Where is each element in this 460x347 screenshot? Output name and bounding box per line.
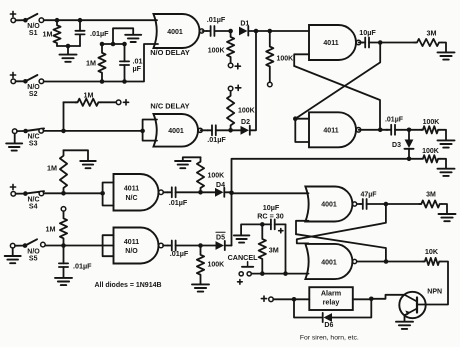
ground at S3	[6, 143, 22, 150]
node R14 bottom	[260, 271, 265, 276]
plus at cancel	[238, 280, 243, 285]
label 10K (R16)	[425, 247, 439, 256]
ground at R15	[439, 214, 456, 221]
terminal below R3	[228, 63, 233, 68]
label .01 uF (C2)	[133, 57, 143, 73]
resistor R11 100K	[197, 157, 204, 192]
wire D3 to trigger bus	[408, 150, 410, 159]
ground at S5	[5, 256, 21, 263]
label D2	[241, 119, 250, 126]
node S3 line / R4	[61, 129, 66, 134]
label N/O DELAY	[150, 48, 190, 57]
terminal at R4	[116, 100, 121, 105]
wire U4 output	[163, 191, 168, 193]
gate U6 4001 NOR	[305, 187, 356, 222]
label 4011 U3b	[323, 128, 338, 135]
svg-text:S5: S5	[29, 255, 38, 262]
wire D2 to node bus	[251, 31, 256, 130]
svg-text:100K: 100K	[208, 172, 225, 179]
gate U5 4011 NAND	[114, 228, 164, 264]
wire cancel to gate U7 input	[251, 273, 308, 275]
resistor R9 100K	[227, 91, 234, 131]
svg-text:D4: D4	[216, 182, 225, 189]
wire C5 node to R7	[409, 129, 422, 131]
label D5	[216, 232, 225, 241]
resistor R1 1M	[53, 22, 60, 46]
label 100K (R13)	[208, 262, 225, 269]
gate U2 4001 NOR	[154, 114, 203, 147]
label 10uF (C10)	[263, 203, 280, 212]
label 100K (R3)	[208, 47, 225, 54]
label N/C DELAY	[150, 102, 189, 111]
wire R16 to Q1 base	[418, 262, 448, 305]
svg-text:3M: 3M	[269, 245, 279, 254]
label .01uF (C7)	[169, 198, 188, 207]
svg-text:S2: S2	[29, 91, 38, 98]
label 4001 U1	[167, 29, 183, 36]
wire S4 to gate U4	[44, 192, 103, 194]
capacitor C9 .01uF	[168, 241, 201, 251]
label 100K (R8)	[422, 148, 439, 155]
capacitor C4 10uF	[362, 38, 380, 48]
wire C11 to R15	[386, 203, 421, 205]
svg-text:relay: relay	[323, 297, 340, 306]
svg-text:CANCEL: CANCEL	[228, 253, 259, 262]
node U3b input bracket	[293, 116, 298, 121]
node on U3b output	[378, 128, 383, 133]
wire U6 output	[357, 203, 361, 205]
wire node to ground hook	[113, 28, 133, 44]
terminal above R9	[228, 86, 233, 91]
wire D5 to bus	[226, 245, 232, 247]
ground at R8	[438, 169, 455, 176]
battery plus terminal for S2	[10, 72, 15, 77]
wire to ground S1 RC	[67, 46, 69, 54]
wire S2 to gate U1 lower input	[44, 44, 158, 82]
node C6/R9/D2	[228, 128, 233, 133]
resistor R4 1M	[64, 99, 102, 106]
gate U4 input bracket	[100, 183, 113, 206]
label 100K (R5)	[277, 56, 294, 63]
plus at R3 terminal	[235, 64, 240, 69]
label CANCEL	[228, 253, 259, 262]
svg-text:10µF: 10µF	[359, 28, 376, 37]
svg-text:1M: 1M	[86, 59, 96, 68]
ground at R13	[192, 284, 209, 291]
svg-text:.01µF: .01µF	[170, 249, 189, 258]
label 3M (R14)	[269, 245, 279, 254]
label 100K (R7)	[423, 119, 440, 126]
wire cross-couple U3a out to U3b	[295, 44, 380, 119]
battery plus terminal for S4	[10, 184, 15, 189]
wire U7 output	[357, 261, 386, 263]
label All diodes = 1N914B	[94, 282, 161, 289]
ground at Q1	[396, 322, 413, 329]
node S4 / R10	[61, 191, 66, 196]
label 4001 U6	[321, 202, 337, 209]
wire S5 terminal to ground	[12, 248, 14, 256]
gate U4 4011 NAND	[114, 174, 164, 211]
wire R8 to ground	[440, 159, 446, 169]
svg-text:.01µF: .01µF	[169, 198, 188, 207]
svg-text:D3: D3	[392, 142, 401, 149]
node S1 line / C1 top	[78, 18, 83, 23]
resistor R5 100K	[266, 31, 273, 82]
resistor R16 10K	[423, 258, 441, 265]
svg-text:.01µF: .01µF	[385, 117, 404, 124]
resistor R13 100K	[197, 246, 204, 285]
svg-text:.01µF: .01µF	[73, 262, 92, 271]
wire U1 output	[202, 30, 207, 32]
diode D2	[233, 126, 250, 135]
relay box	[309, 287, 353, 310]
node C11/R15/latch	[384, 202, 389, 207]
svg-text:100K: 100K	[422, 148, 439, 155]
capacitor C2 .01uF	[120, 44, 129, 82]
label D4	[216, 182, 225, 189]
svg-text:100K: 100K	[277, 56, 294, 63]
capacitor C10 10uF	[262, 219, 285, 229]
svg-text:4011: 4011	[323, 40, 338, 47]
svg-text:.01µF: .01µF	[207, 15, 226, 24]
svg-text:.01µF: .01µF	[90, 29, 109, 38]
label D1	[240, 20, 249, 27]
label RC = 30	[257, 211, 284, 220]
capacitor C7 .01uF	[168, 187, 201, 197]
svg-text:N/O: N/O	[125, 248, 138, 255]
label 4011 U3a	[323, 40, 338, 47]
svg-text:4011: 4011	[323, 128, 338, 135]
svg-text:NPN: NPN	[427, 289, 442, 296]
capacitor C6 .01uF	[208, 125, 231, 135]
wire R6 to ground	[442, 43, 446, 53]
node C9/R13/D5	[198, 243, 203, 248]
label 1M (R12)	[46, 225, 56, 234]
gate U3b 4011 NAND	[309, 112, 361, 147]
svg-text:1M: 1M	[47, 164, 57, 173]
label 1M (R4)	[84, 91, 94, 100]
label .01uF (C8)	[73, 262, 92, 271]
label 3M (R6)	[427, 28, 437, 37]
plus at R4 terminal	[123, 100, 128, 105]
svg-text:For siren, horn, etc.: For siren, horn, etc.	[300, 334, 359, 341]
resistor R14 3M	[259, 224, 266, 273]
resistor R10 1M	[60, 150, 67, 193]
diode D1	[239, 26, 248, 35]
svg-text:N/C: N/C	[27, 196, 39, 203]
label 47uF (C11)	[360, 192, 377, 199]
resistor R3 100K	[227, 31, 234, 63]
capacitor C5 .01uF	[386, 125, 409, 135]
resistor R12 1M	[60, 211, 67, 245]
svg-text:S4: S4	[29, 203, 38, 210]
wire D6 left leg	[294, 299, 323, 317]
wire Q1 collector	[371, 295, 404, 299]
wire R10 to ground hook	[64, 150, 89, 160]
svg-text:1M: 1M	[46, 225, 56, 234]
node C5/R7/D3	[407, 128, 412, 133]
wire U7 out to R16	[386, 261, 424, 263]
switch S5 (N/O)	[10, 239, 45, 248]
label 100K (R11)	[208, 172, 225, 179]
svg-text:10K: 10K	[425, 247, 439, 256]
terminal below R5	[268, 82, 273, 87]
diode D3	[404, 130, 413, 149]
wire U3b input bracket	[295, 119, 309, 142]
svg-text:3M: 3M	[427, 28, 437, 37]
node C3/R3/D1	[228, 29, 233, 34]
wire cross-couple U6 out to U7	[297, 205, 386, 243]
label N/C S3	[27, 134, 39, 148]
transistor Q1 NPN	[399, 292, 425, 318]
wire ground hook cancel RC	[241, 224, 262, 235]
label 1M (R1)	[43, 30, 53, 39]
wire Q1 emitter to ground	[404, 315, 406, 321]
label N/O S1	[27, 23, 40, 37]
svg-text:4011: 4011	[124, 186, 139, 193]
label 1M (R2)	[86, 59, 96, 68]
node R5 top	[268, 29, 273, 34]
wire R11 to ground hook	[183, 157, 201, 160]
svg-text:4011: 4011	[124, 239, 139, 246]
wire C4 to R6	[380, 42, 416, 44]
battery plus terminal relay	[261, 296, 266, 301]
gate U3a 4011 NAND	[309, 25, 361, 60]
label .01uF (C9)	[170, 249, 189, 258]
label 1M (R10)	[47, 164, 57, 173]
wire S5 to gate U5	[45, 245, 113, 247]
svg-text:N/C DELAY: N/C DELAY	[150, 102, 189, 111]
svg-text:N/O: N/O	[27, 248, 40, 255]
gate U5 input bracket	[103, 235, 114, 256]
svg-text:Alarm: Alarm	[321, 288, 341, 297]
ground at R11	[175, 161, 191, 168]
switch S3 (N/C)	[12, 129, 44, 134]
switch S1 (N/O)	[16, 14, 44, 23]
node D4/bus	[229, 191, 234, 196]
wire C10 down leg	[285, 224, 287, 273]
wire R7 to ground	[440, 130, 446, 140]
label 4011 N/C U4	[124, 186, 139, 202]
node R2/C2 top rail	[100, 42, 127, 47]
wire D1 to U3 input	[249, 30, 309, 32]
ground at R7	[438, 140, 455, 147]
wire relay right	[353, 298, 372, 300]
svg-text:3M: 3M	[426, 192, 436, 199]
svg-text:100K: 100K	[238, 107, 255, 114]
svg-text:100K: 100K	[208, 47, 225, 54]
wire trigger bus	[232, 159, 410, 246]
svg-text:D2: D2	[241, 119, 250, 126]
wire U3b output	[359, 129, 388, 131]
svg-text:D6: D6	[324, 322, 333, 329]
wire S3 terminal to ground	[14, 134, 16, 144]
wire U3a out to C4	[359, 42, 363, 44]
label 3M (R15)	[426, 192, 436, 199]
node D3 / bus / R8	[407, 157, 412, 162]
node relay right	[369, 297, 374, 302]
label NPN	[427, 289, 442, 296]
terminal above R12	[61, 207, 66, 212]
ground at R10	[80, 161, 96, 168]
wire U2 output	[201, 129, 208, 131]
wire U3a lower input hook	[294, 54, 309, 66]
pushbutton cancel actuator	[242, 262, 253, 267]
label 100K (R9)	[238, 107, 255, 114]
wire D6 right leg	[332, 299, 371, 318]
node RC top / R14	[260, 222, 265, 227]
resistor R7 100K	[421, 126, 440, 133]
svg-text:100K: 100K	[208, 262, 225, 269]
label N/O S2	[27, 84, 40, 98]
wire R1/C1 bottoms	[57, 45, 80, 47]
node C4/R6/latch	[378, 40, 383, 45]
svg-text:RC = 30: RC = 30	[257, 211, 284, 220]
svg-text:.01µF: .01µF	[207, 135, 226, 144]
label .01uF (C6)	[207, 135, 226, 144]
terminal of S4	[11, 192, 16, 197]
label D6	[324, 322, 333, 329]
wire S3 to gate U2	[44, 130, 143, 132]
ground near gate U1	[125, 35, 141, 42]
svg-text:µF: µF	[133, 64, 142, 73]
label Alarm relay	[321, 288, 341, 306]
svg-text:100K: 100K	[423, 119, 440, 126]
node ground stem S1 RC	[66, 44, 71, 49]
capacitor C11 47uF	[360, 199, 386, 209]
svg-text:D1: D1	[240, 20, 249, 27]
svg-text:S1: S1	[29, 30, 38, 37]
label 10uF (C4)	[359, 28, 376, 37]
svg-text:47µF: 47µF	[360, 192, 377, 199]
label 4001 U2	[168, 128, 184, 135]
pushbutton cancel contacts	[239, 272, 251, 276]
op-amp gate U1 4001 NOR	[154, 14, 204, 48]
terminal of S2	[11, 79, 16, 84]
resistor R6 3M	[414, 39, 442, 46]
resistor R2 1M	[98, 44, 105, 82]
wire D4 to bus	[225, 191, 231, 193]
capacitor C8 .01uF	[59, 246, 68, 278]
label For siren horn etc	[300, 334, 359, 341]
plus at R9 terminal	[236, 85, 241, 90]
plus at C10	[279, 229, 283, 233]
label .01uF (C5)	[385, 117, 404, 124]
node D2 bus join	[254, 29, 259, 34]
node C7/R11/D4	[198, 190, 203, 195]
svg-text:1M: 1M	[84, 91, 94, 100]
ground at C8	[55, 278, 72, 285]
node U7 out / R16	[384, 259, 389, 264]
svg-text:All diodes = 1N914B: All diodes = 1N914B	[94, 282, 161, 289]
label 4011 N/O U5	[124, 239, 139, 255]
node S2/C2	[122, 79, 127, 84]
node S1 line / R1 top	[55, 18, 60, 23]
capacitor C3 .01uF	[207, 26, 231, 36]
ground for S1 RC	[60, 55, 77, 62]
ground at R6	[438, 52, 455, 59]
wire bus to U6 input	[232, 192, 309, 194]
battery plus terminal for S1	[10, 11, 15, 16]
label .01uF (C3)	[207, 15, 226, 24]
diode D5	[203, 241, 225, 250]
label .01uF (C1)	[90, 29, 109, 38]
svg-text:4001: 4001	[321, 259, 337, 266]
node relay left	[292, 297, 297, 302]
label N/O S5	[27, 248, 40, 262]
node S5 / R12 / C8	[61, 243, 66, 248]
svg-text:N/C: N/C	[27, 134, 39, 141]
wire U5 output	[163, 245, 168, 247]
wire R4 to terminal	[101, 101, 116, 103]
resistor R8 100K	[409, 155, 440, 162]
svg-text:S3: S3	[29, 141, 38, 148]
svg-text:D5: D5	[216, 234, 225, 241]
wire cross-couple U7 out to U6	[296, 234, 386, 260]
diode D4	[203, 188, 225, 197]
switch S2 (N/O)	[16, 75, 44, 84]
svg-text:4001: 4001	[321, 202, 337, 209]
ground at cancel RC	[234, 235, 250, 242]
svg-text:N/O DELAY: N/O DELAY	[150, 48, 190, 57]
switch S4 (N/C)	[16, 191, 44, 196]
wire S1 to gate U1 input	[44, 19, 157, 21]
diode D6	[323, 313, 332, 322]
resistor R15 3M	[419, 200, 442, 207]
wire R4 drop	[63, 102, 65, 131]
node S2/R2	[100, 79, 105, 84]
svg-text:4001: 4001	[168, 128, 184, 135]
wire cross-couple U3b out to U3a	[294, 66, 380, 130]
label D3	[392, 142, 401, 149]
terminal of S1	[11, 18, 16, 23]
node C10 leg bottom	[283, 271, 288, 276]
wire U6 lower input hook	[296, 221, 309, 234]
svg-text:1M: 1M	[43, 30, 53, 39]
svg-text:4001: 4001	[167, 29, 183, 36]
label N/C S4	[27, 196, 39, 210]
gate U2 input bracket	[140, 120, 157, 141]
capacitor C1 .01uF	[75, 22, 84, 46]
wire supply to relay	[273, 298, 309, 300]
wire R15 to ground	[442, 204, 447, 214]
terminal at relay supply	[269, 297, 274, 302]
label 4001 U7	[321, 259, 337, 266]
svg-text:N/C: N/C	[125, 195, 137, 202]
gate U7 4001 NOR	[305, 244, 356, 279]
